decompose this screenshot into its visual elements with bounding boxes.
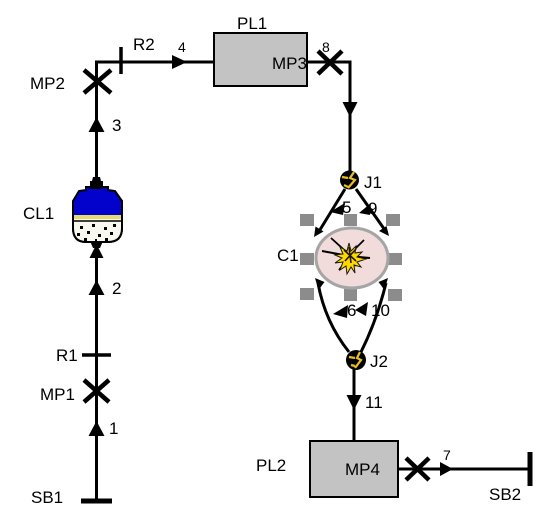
svg-text:MP4: MP4 [345, 460, 380, 479]
stream 11 arrow [347, 393, 383, 412]
stream 3 arrow [89, 116, 122, 135]
source SB1 [31, 488, 112, 507]
wire: CL1 top to corner and across to PL1 [97, 62, 215, 178]
stream 8 arrow down [343, 102, 358, 117]
svg-text:2: 2 [112, 279, 121, 298]
svg-text:CL1: CL1 [23, 204, 54, 223]
svg-text:SB2: SB2 [489, 485, 521, 504]
stream 9 branch: J1 to C1 right [356, 189, 389, 236]
component C1 [277, 228, 388, 288]
valve MP2 [30, 70, 111, 93]
svg-text:3: 3 [112, 116, 121, 135]
svg-text:R2: R2 [133, 35, 155, 54]
junction J1 [340, 171, 382, 193]
svg-text:PL1: PL1 [237, 14, 267, 33]
svg-text:C1: C1 [277, 246, 299, 265]
wire: J2 down to PL2 [353, 368, 356, 441]
stream 6 branch: C1 left to J2 [315, 278, 356, 352]
valve MP4 [406, 458, 429, 480]
valve MP1 [40, 380, 109, 404]
stream 10 branch: C1 right to J2 [355, 278, 390, 352]
svg-text:MP3: MP3 [272, 54, 307, 73]
component C1 selection handles [300, 214, 402, 301]
stream 5 branch: J1 to C1 left [314, 189, 351, 237]
stream 4 arrow [172, 39, 187, 69]
stream 7 arrow [440, 447, 453, 476]
pump PL1 [214, 14, 307, 86]
svg-text:9: 9 [368, 199, 377, 218]
stream 2 arrow [89, 279, 122, 298]
wire: PL2 to SB2 [398, 468, 528, 471]
sink SB2 [489, 452, 530, 504]
svg-text:J1: J1 [364, 173, 382, 192]
pump PL2 [256, 441, 398, 497]
svg-text:J2: J2 [370, 352, 388, 371]
accumulator CL1 [23, 177, 122, 248]
svg-text:1: 1 [109, 419, 118, 438]
svg-text:PL2: PL2 [256, 456, 286, 475]
svg-text:7: 7 [443, 447, 451, 463]
stream 1 arrow [89, 419, 119, 438]
svg-text:10: 10 [371, 301, 390, 320]
svg-text:6: 6 [347, 301, 356, 320]
svg-text:MP1: MP1 [40, 385, 75, 404]
svg-text:8: 8 [322, 39, 330, 55]
svg-text:4: 4 [178, 39, 186, 55]
wire: PL1 to corner down to J1 [307, 62, 350, 171]
valve MP3 [318, 51, 342, 74]
wire: SB1 up through MP1, R1 to CL1 bottom [95, 243, 98, 501]
restrictor R1 [56, 346, 111, 365]
restrictor R2 [121, 35, 155, 74]
junction J2 [346, 350, 388, 371]
stream 2 arrowhead at CL1 inlet [90, 244, 104, 258]
svg-text:SB1: SB1 [31, 488, 63, 507]
svg-text:R1: R1 [56, 346, 78, 365]
svg-text:11: 11 [365, 393, 383, 412]
svg-text:MP2: MP2 [30, 74, 65, 93]
